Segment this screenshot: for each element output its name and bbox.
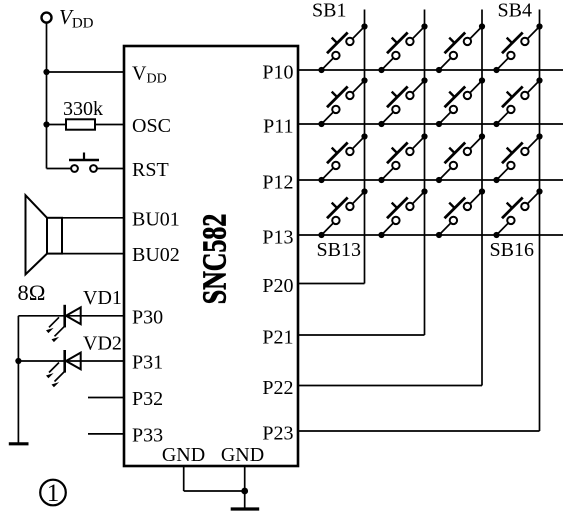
junction GND node [241, 488, 248, 495]
pushbutton SB16 [493, 188, 542, 238]
wire: LED common rail vertical [17, 316, 19, 443]
svg-text:SB16: SB16 [490, 239, 534, 261]
op IC U1 SNC582 body [124, 46, 298, 466]
wire: GND horizontal link [184, 490, 245, 492]
wire: column P23 to pin [298, 430, 540, 432]
svg-text:P33: P33 [132, 424, 163, 446]
pushbutton SB11 [436, 133, 485, 183]
wire: column P21 to pin [298, 334, 425, 336]
svg-text:330k: 330k [63, 98, 103, 120]
wire: key column P21 bus [424, 10, 426, 336]
pushbutton SB2 [378, 23, 427, 73]
wire: speaker to BU02 pin [62, 253, 124, 255]
junction LED rail / VD2 [15, 358, 21, 364]
svg-text:P10: P10 [262, 62, 293, 84]
speaker driver body [47, 218, 62, 254]
reset push button [69, 153, 99, 172]
wire: key column P23 bus [539, 10, 541, 432]
figure number 1 (circled) [40, 480, 66, 507]
wire: key row P11 bus [298, 123, 563, 125]
wire: P32 stub [88, 397, 124, 399]
svg-text:BU02: BU02 [132, 244, 180, 266]
wire: column P20 to pin [298, 283, 365, 285]
svg-text:SNC582: SNC582 [196, 214, 233, 305]
ground (LED rail) [9, 442, 29, 445]
wire: rail to VDD pin [47, 71, 125, 73]
wire: GND stub down [244, 491, 246, 508]
pushbutton SB12 [493, 133, 542, 183]
svg-text:P30: P30 [132, 306, 163, 328]
pushbutton SB6 [378, 77, 427, 127]
pushbutton SB5 [318, 77, 367, 127]
speaker cone [26, 195, 48, 274]
IC part number SNC582 [196, 214, 233, 305]
svg-text:OSC: OSC [132, 115, 171, 137]
svg-text:P31: P31 [132, 352, 163, 374]
svg-text:BU01: BU01 [132, 208, 180, 230]
wire: rail to resistor R [47, 124, 67, 126]
svg-text:P12: P12 [262, 172, 293, 194]
resistor 330k [66, 119, 95, 129]
pushbutton SB3 [436, 23, 485, 73]
wire: speaker to BU01 pin [62, 217, 124, 219]
pushbutton SB10 [378, 133, 427, 183]
LED VD1 [46, 305, 81, 342]
svg-text:P11: P11 [263, 116, 293, 138]
svg-text:RST: RST [132, 159, 169, 181]
svg-text:GND: GND [162, 444, 205, 466]
wire: P33 stub [88, 433, 124, 435]
svg-text:SB13: SB13 [317, 239, 361, 261]
svg-text:VD1: VD1 [83, 287, 122, 309]
ground (IC) [231, 507, 260, 510]
pushbutton SB13 [318, 188, 367, 238]
VDD supply terminal [42, 13, 52, 23]
wire: reset button to RST pin [97, 168, 125, 170]
svg-text:P20: P20 [262, 275, 293, 297]
wire: LED rail to VD2 / P3x pin [18, 360, 124, 362]
wire: key row P12 bus [298, 179, 563, 181]
wire: rail to reset button [47, 168, 72, 170]
pushbutton SB15 [436, 188, 485, 238]
svg-text:P13: P13 [262, 227, 293, 249]
wire: key column P22 bus [481, 10, 483, 386]
pushbutton SB1 [318, 23, 367, 73]
svg-text:1: 1 [47, 480, 60, 507]
wire: column P22 to pin [298, 385, 482, 387]
wire: key row P10 bus [298, 69, 563, 71]
pushbutton SB8 [493, 77, 542, 127]
svg-text:P23: P23 [262, 423, 293, 445]
svg-text:8Ω: 8Ω [18, 280, 46, 305]
LED VD2 [46, 350, 81, 387]
pushbutton SB4 [493, 23, 542, 73]
pushbutton SB9 [318, 133, 367, 183]
svg-text:SB4: SB4 [498, 0, 532, 22]
junction VDD rail / OSC branch [43, 121, 49, 127]
wire: key row P13 bus [298, 234, 563, 236]
wire: LED rail to VD1 / P3x pin [18, 315, 124, 317]
svg-text:GND: GND [221, 444, 264, 466]
wire: key column P20 bus [364, 10, 366, 284]
svg-text:SB1: SB1 [312, 0, 346, 22]
wire: GND left pin down [183, 466, 185, 491]
junction VDD rail / VDD pin [43, 69, 49, 75]
svg-text:VD2: VD2 [83, 333, 122, 355]
pushbutton SB7 [436, 77, 485, 127]
svg-text:P22: P22 [262, 377, 293, 399]
wire: resistor to OSC pin [95, 124, 124, 126]
wire: GND right pin down [244, 466, 246, 491]
svg-text:P21: P21 [262, 327, 293, 349]
svg-text:P32: P32 [132, 388, 163, 410]
pushbutton SB14 [378, 188, 427, 238]
wire: VDD rail vertical [46, 23, 48, 169]
